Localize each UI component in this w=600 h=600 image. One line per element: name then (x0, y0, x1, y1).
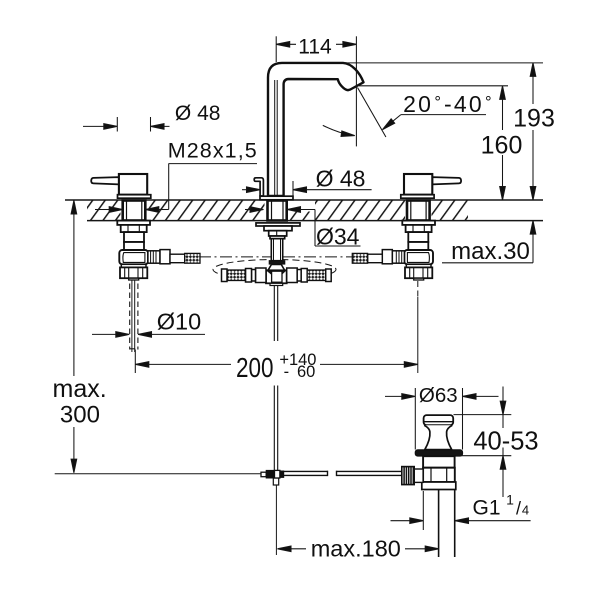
spout body (268, 63, 364, 196)
svg-text:/: / (516, 498, 521, 518)
svg-text:4: 4 (522, 502, 529, 517)
right valve under-deck stack (402, 221, 435, 250)
dimension 193 (530, 63, 536, 200)
pop-up waste assembly (415, 415, 462, 557)
svg-text:Ø 48: Ø 48 (175, 102, 221, 125)
spout shank through counter (268, 201, 287, 221)
svg-text:114: 114 (298, 36, 332, 59)
spout pop-up knob lever (254, 178, 263, 196)
dimension Ø34 leader (245, 207, 361, 246)
center tube below deck (269, 239, 284, 264)
svg-text:300: 300 (60, 401, 100, 428)
dimension 160 (500, 86, 506, 200)
dimension max.180 (278, 546, 439, 552)
left valve elbow body (119, 250, 148, 264)
svg-text:- 60: - 60 (284, 363, 316, 381)
dimension 114 (276, 36, 356, 146)
svg-text:160: 160 (481, 132, 523, 160)
svg-text:Ø 48: Ø 48 (316, 166, 366, 192)
right valve side port + hose (352, 250, 404, 264)
rod coupling (261, 470, 284, 478)
svg-text:Ø34: Ø34 (316, 223, 360, 249)
dimension 160 reference line (359, 85, 508, 87)
svg-text:max.180: max.180 (311, 536, 401, 562)
left valve shank through counter (123, 201, 146, 221)
svg-text:1: 1 (506, 491, 514, 507)
dimension max.30 (442, 221, 536, 263)
dimension Ø48 left (83, 117, 170, 132)
T left fitting chain (222, 268, 267, 283)
dimension Ø10 (92, 332, 205, 338)
right valve elbow body (404, 250, 433, 264)
right handle valve (above deck) (401, 174, 461, 198)
label M28x1,5 leader (95, 164, 257, 213)
wire: left reference line (55, 473, 261, 475)
right valve bottom nut (405, 264, 432, 280)
svg-text:G1: G1 (472, 496, 500, 519)
dimension Ø63 (385, 388, 499, 450)
wire: hose axis dash-dot (199, 256, 354, 258)
horizontal pop-up actuating rod (284, 471, 402, 476)
center mounting stack (256, 223, 300, 239)
countertop (65, 199, 543, 222)
waste rod knob (402, 467, 423, 485)
left handle valve (above deck) (91, 174, 151, 198)
svg-text:max.: max. (53, 375, 107, 403)
svg-text:20°-40°: 20°-40° (403, 91, 494, 117)
svg-text:193: 193 (513, 105, 555, 133)
right valve centerline (ext of 200 dim) (417, 281, 419, 373)
svg-text:Ø10: Ø10 (157, 309, 201, 335)
left valve side port + hose (148, 250, 200, 264)
label 20-40 leader (323, 88, 486, 139)
dimension 40-53 (454, 387, 512, 498)
svg-text:40-53: 40-53 (473, 428, 538, 456)
left valve Ø10 supply pipe (dashed) (130, 280, 138, 352)
dimension max.300 (71, 201, 77, 473)
svg-text:200: 200 (236, 352, 274, 383)
dimension 200 +140/-60 (135, 350, 418, 374)
spout base flange (260, 196, 293, 200)
dimension Ø48 center (242, 181, 372, 200)
left valve under-deck stack (117, 221, 150, 250)
svg-text:M28x1,5: M28x1,5 (168, 138, 258, 162)
right valve shank through counter (407, 201, 430, 221)
left valve bottom nut (120, 264, 147, 280)
dimension 193 reference line (344, 62, 543, 64)
center T connector (266, 264, 287, 285)
svg-text:max.30: max.30 (451, 238, 530, 265)
svg-text:Ø63: Ø63 (419, 384, 458, 407)
dimension G1 1/4 (391, 491, 531, 530)
node: basin cutout ellipse (213, 260, 336, 280)
pop-up vertical rod (273, 286, 278, 556)
T right fitting chain (287, 268, 332, 283)
